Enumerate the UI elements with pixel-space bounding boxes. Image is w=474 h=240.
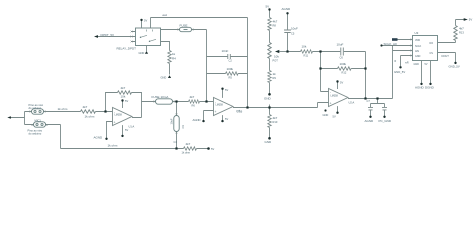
svg-text:DGND: DGND xyxy=(425,85,435,89)
svg-text:SCLK_A0: SCLK_A0 xyxy=(384,42,398,46)
svg-text:4k7: 4k7 xyxy=(186,142,191,146)
svg-text:5V: 5V xyxy=(225,117,228,121)
svg-text:C2: C2 xyxy=(229,58,233,62)
svg-text:C5: C5 xyxy=(291,32,295,36)
svg-text:5V: 5V xyxy=(144,19,147,23)
svg-text:10k: 10k xyxy=(302,45,307,49)
svg-text:LM358: LM358 xyxy=(115,113,123,116)
svg-text:4k7: 4k7 xyxy=(190,95,195,99)
svg-text:5V: 5V xyxy=(333,114,336,118)
svg-text:R5: R5 xyxy=(229,76,233,80)
svg-text:GND_5V: GND_5V xyxy=(394,70,405,74)
svg-text:10k: 10k xyxy=(274,55,279,59)
svg-text:1k ohm: 1k ohm xyxy=(108,143,118,147)
svg-text:5V: 5V xyxy=(469,18,473,22)
svg-text:100k: 100k xyxy=(227,67,234,71)
svg-text:FUSE: FUSE xyxy=(180,24,188,28)
svg-text:+: + xyxy=(330,102,332,106)
svg-text:DPDT_5V: DPDT_5V xyxy=(101,33,115,37)
svg-text:U3: U3 xyxy=(415,31,419,35)
svg-text:5V: 5V xyxy=(225,88,228,92)
svg-text:LM358: LM358 xyxy=(331,94,339,97)
svg-text:5V: 5V xyxy=(211,147,214,151)
svg-text:5V: 5V xyxy=(425,63,428,66)
svg-text:100k: 100k xyxy=(340,62,347,66)
svg-text:R10: R10 xyxy=(273,120,278,124)
svg-text:POT: POT xyxy=(273,59,279,63)
svg-text:GND: GND xyxy=(323,113,329,117)
svg-text:C4: C4 xyxy=(174,140,178,144)
svg-text:CS: CS xyxy=(430,52,434,55)
svg-text:AGND: AGND xyxy=(415,85,425,89)
svg-text:VDD: VDD xyxy=(415,39,420,42)
svg-text:out: out xyxy=(237,108,241,112)
svg-text:4k7: 4k7 xyxy=(273,116,278,120)
svg-text:GND: GND xyxy=(161,76,167,80)
svg-text:-: - xyxy=(114,110,115,114)
svg-text:GND: GND xyxy=(139,51,145,55)
svg-text:PC_GND: PC_GND xyxy=(379,119,392,123)
svg-text:R12: R12 xyxy=(342,70,347,74)
svg-text:AGND: AGND xyxy=(193,118,201,122)
svg-text:10uF: 10uF xyxy=(337,43,344,47)
svg-text:GND: GND xyxy=(414,63,420,66)
svg-text:GND_5V: GND_5V xyxy=(449,65,460,69)
svg-text:5V: 5V xyxy=(266,5,270,9)
svg-text:R8: R8 xyxy=(273,24,277,28)
svg-text:R6: R6 xyxy=(192,104,196,108)
svg-text:DOUT: DOUT xyxy=(442,54,450,58)
svg-text:SCLK: SCLK xyxy=(415,45,422,48)
svg-text:1k ohm: 1k ohm xyxy=(182,150,191,154)
svg-text:5V: 5V xyxy=(340,81,343,85)
svg-text:C7: C7 xyxy=(367,99,371,103)
svg-text:do arduino: do arduino xyxy=(29,106,42,110)
svg-text:1k ohm: 1k ohm xyxy=(85,114,95,118)
svg-text:R13: R13 xyxy=(459,31,464,35)
svg-text:◄R: ◄R xyxy=(405,62,409,65)
svg-text:5V: 5V xyxy=(125,99,128,103)
svg-text:4k7: 4k7 xyxy=(459,26,464,30)
svg-text:R: R xyxy=(395,60,397,63)
svg-text:4k7: 4k7 xyxy=(273,19,278,23)
svg-text:4k7: 4k7 xyxy=(83,105,88,109)
svg-text:do arduino: do arduino xyxy=(29,132,42,136)
svg-text:AGND: AGND xyxy=(282,7,292,11)
svg-text:R11: R11 xyxy=(304,53,309,57)
svg-text:RELAY_DPDT: RELAY_DPDT xyxy=(117,47,137,51)
svg-text:-: - xyxy=(330,90,331,94)
svg-text:GND: GND xyxy=(264,97,272,101)
svg-text:AGND: AGND xyxy=(365,119,375,123)
svg-text:1k ohm: 1k ohm xyxy=(58,107,68,111)
svg-text:R9: R9 xyxy=(273,76,277,80)
svg-text:out: out xyxy=(163,13,167,17)
svg-text:10uF: 10uF xyxy=(291,27,298,31)
svg-text:-: - xyxy=(215,100,216,104)
svg-text:10nF: 10nF xyxy=(222,49,229,53)
svg-text:GND: GND xyxy=(415,55,421,58)
svg-text:LM358: LM358 xyxy=(216,103,224,106)
svg-text:C3: C3 xyxy=(181,125,185,129)
svg-text:GND: GND xyxy=(265,140,273,144)
svg-text:1k: 1k xyxy=(172,52,176,56)
svg-text:1k: 1k xyxy=(273,72,277,76)
svg-text:10mA: 10mA xyxy=(161,95,169,99)
svg-text:FUSE: FUSE xyxy=(152,95,160,99)
svg-text:+: + xyxy=(215,110,217,114)
svg-text:U2:A: U2:A xyxy=(349,100,355,104)
svg-text:10uF: 10uF xyxy=(169,118,173,124)
svg-text:MIC1: MIC1 xyxy=(35,118,42,122)
svg-text:DO: DO xyxy=(430,42,434,45)
svg-text:U1:A: U1:A xyxy=(129,125,135,129)
svg-text:AGND: AGND xyxy=(94,135,104,139)
svg-text:C6: C6 xyxy=(340,56,344,60)
svg-text:4k7: 4k7 xyxy=(121,86,126,90)
svg-text:AIN: AIN xyxy=(415,50,419,53)
svg-text:R4: R4 xyxy=(172,57,176,61)
svg-text:10k: 10k xyxy=(121,95,126,99)
svg-text:+: + xyxy=(114,121,116,125)
